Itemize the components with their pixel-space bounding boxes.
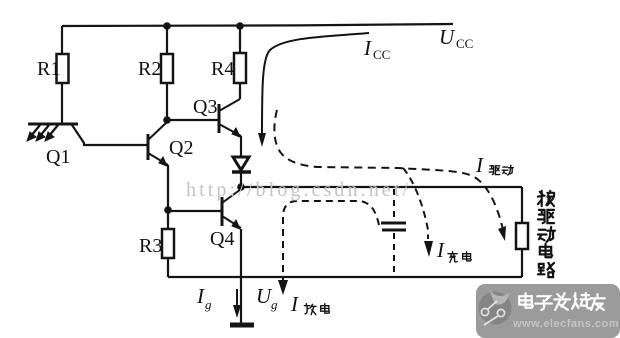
transistor Q2 [148, 122, 168, 166]
wire: node E2 to R3 [167, 211, 169, 229]
junction: node Q2 collector / R2 / Q3 base [163, 116, 171, 124]
wire: load top [521, 187, 523, 223]
transistor Q1 multi-emitter [27, 124, 78, 141]
wire: diode to output node [240, 173, 242, 187]
transistor Q3 [219, 99, 241, 137]
junction: R2 top on Ucc rail [163, 22, 171, 30]
svg-text:www.elecfans.com: www.elecfans.com [512, 318, 619, 330]
resistor R4 [234, 53, 246, 83]
svg-text:CC: CC [373, 47, 390, 62]
wire: node E2 to Q4 base [168, 210, 221, 212]
svg-text:g: g [205, 297, 212, 312]
svg-text:CC: CC [456, 36, 473, 51]
svg-text:I: I [290, 292, 299, 316]
svg-text:R3: R3 [139, 235, 162, 257]
svg-text:I: I [196, 284, 205, 308]
wire: R1 to Q1 base [61, 83, 63, 123]
svg-text:R4: R4 [211, 58, 234, 80]
svg-text:Q1: Q1 [46, 146, 70, 168]
wire: Q1 collector to Q2 base [72, 125, 147, 145]
wire: rail to R4 [239, 26, 241, 53]
wire: node B2 to Q3 base [167, 119, 218, 121]
wire: rail to R1 [61, 26, 63, 54]
transistor Q4 [222, 189, 241, 229]
junction: node Q2 emitter / R3 / Q4 base [164, 206, 172, 214]
resistor R1 [57, 54, 69, 83]
wire: load bottom [521, 249, 523, 277]
junction: R4 top on Ucc rail [236, 22, 244, 30]
svg-text:I: I [363, 36, 372, 60]
I-drive dashed curve [274, 110, 503, 230]
wire: R2 to node B2 [166, 83, 168, 120]
svg-text:Q2: Q2 [169, 137, 193, 159]
svg-text:Q3: Q3 [193, 96, 217, 118]
svg-text:U: U [439, 25, 456, 49]
resistor R2 [161, 54, 173, 83]
Ug ground current arrow [236, 289, 238, 310]
diode D [232, 157, 251, 172]
svg-text:R1: R1 [37, 58, 60, 80]
ground [230, 323, 254, 328]
svg-text:g: g [271, 297, 278, 312]
resistor R3 [162, 229, 174, 258]
wire: Q3 emitter to diode [240, 136, 242, 156]
top rail Ucc [62, 24, 453, 26]
wire: rail to R2 [166, 26, 168, 54]
wire: R3 to bottom rail [167, 258, 169, 277]
wire: Q2 emitter down to node E2 [167, 165, 169, 210]
wire: output line to load [241, 186, 522, 188]
resistor RL load [516, 223, 528, 249]
wire: R4 to Q3 collector [239, 83, 241, 99]
Icc solid curve arrow [262, 33, 369, 135]
label driven-circuit (vertical) [538, 191, 555, 277]
wire: Q4 emitter down through rail to ground [240, 229, 242, 323]
junction: output node (diode cathode / Q4 collector / load) [237, 183, 245, 191]
svg-text:R2: R2 [138, 58, 161, 80]
svg-text:I: I [436, 238, 445, 262]
svg-text:http://blog.csdn.net/: http://blog.csdn.net/ [186, 179, 411, 201]
I-discharge dashed loop [283, 201, 379, 282]
svg-text:Q4: Q4 [210, 228, 234, 250]
svg-text:I: I [475, 153, 484, 177]
bottom rail [168, 276, 522, 278]
I-charge dashed branch [403, 168, 428, 239]
capacitor C (dashed connections) [381, 189, 406, 276]
